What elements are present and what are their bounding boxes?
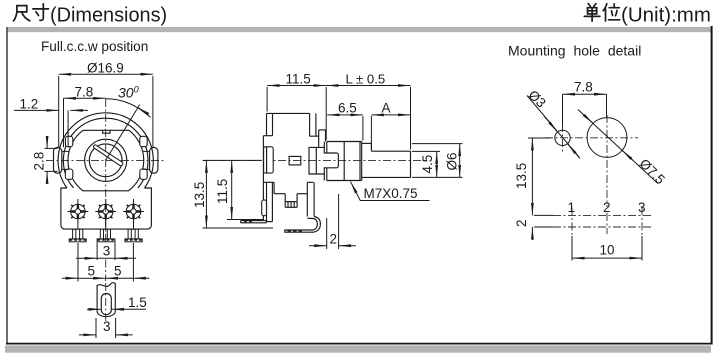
svg-text:A: A: [382, 101, 391, 116]
svg-text:(Unit):mm: (Unit):mm: [621, 4, 711, 27]
svg-text:2.8: 2.8: [32, 152, 47, 171]
svg-text:Mounting hole detail: Mounting hole detail: [508, 43, 641, 59]
svg-text:(Dimensions): (Dimensions): [50, 5, 167, 27]
svg-text:3: 3: [103, 319, 111, 334]
svg-text:5: 5: [114, 264, 122, 279]
svg-text:5: 5: [88, 264, 96, 279]
svg-text:Ø6: Ø6: [445, 152, 460, 170]
svg-text:4.5: 4.5: [420, 155, 435, 174]
svg-text:2: 2: [603, 200, 611, 215]
svg-text:1.2: 1.2: [20, 97, 39, 112]
svg-text:13.5: 13.5: [514, 163, 529, 189]
svg-text:2: 2: [330, 232, 338, 247]
svg-text:11.5: 11.5: [286, 72, 311, 87]
svg-text:M7X0.75: M7X0.75: [364, 186, 418, 201]
svg-text:2: 2: [514, 219, 529, 227]
svg-text:1.5: 1.5: [128, 295, 147, 310]
svg-text:L ± 0.5: L ± 0.5: [346, 72, 386, 87]
svg-text:10: 10: [600, 243, 615, 258]
svg-text:3: 3: [103, 244, 111, 259]
svg-text:Ø16.9: Ø16.9: [87, 61, 124, 76]
svg-text:Full.c.c.w position: Full.c.c.w position: [41, 39, 148, 54]
svg-text:13.5: 13.5: [192, 182, 207, 208]
svg-text:7.8: 7.8: [75, 85, 94, 100]
svg-text:1: 1: [568, 200, 576, 215]
svg-text:6.5: 6.5: [338, 101, 357, 116]
svg-text:11.5: 11.5: [215, 179, 230, 204]
svg-text:7.8: 7.8: [574, 80, 593, 95]
